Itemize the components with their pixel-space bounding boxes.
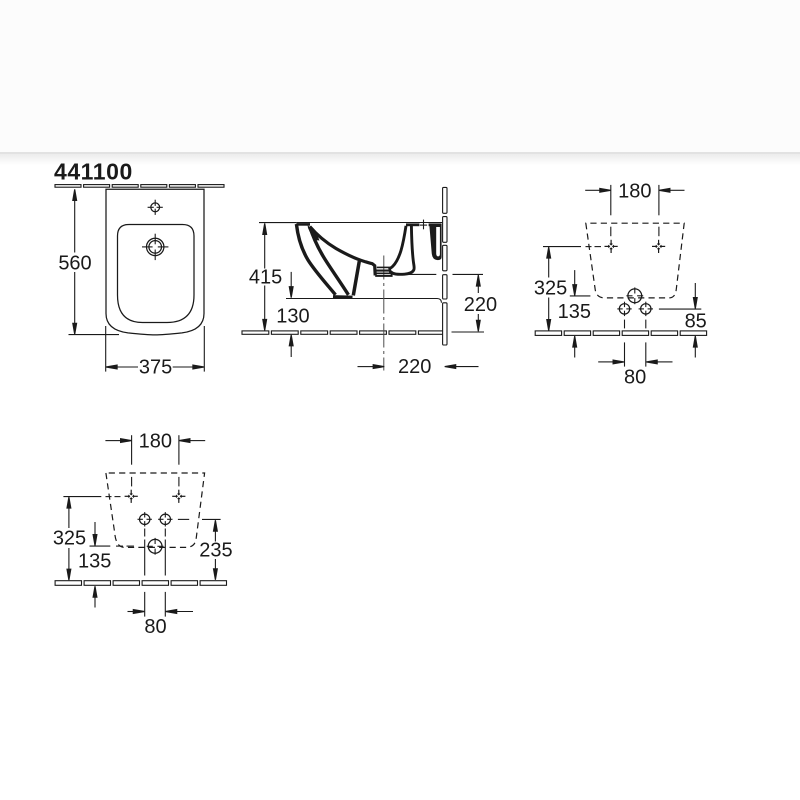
svg-text:235: 235	[199, 540, 232, 562]
drilling view lower fixing holes	[138, 512, 152, 526]
rear view dimension 180	[585, 185, 684, 215]
drilling view 325 extension line	[63, 496, 120, 498]
drilling view drain circle	[147, 538, 164, 555]
drilling view 235 extension line	[178, 518, 221, 520]
plan view tap hole crosshair	[148, 200, 163, 215]
svg-text:80: 80	[144, 616, 166, 638]
dimension 560	[69, 194, 120, 335]
svg-text:180: 180	[618, 181, 651, 203]
side view 415 extension line	[259, 222, 296, 224]
svg-text:130: 130	[276, 305, 309, 327]
rear view dimension 135	[574, 270, 576, 285]
svg-text:180: 180	[139, 430, 172, 452]
dimension 220 bottom	[358, 366, 479, 368]
dimension 375	[106, 326, 205, 372]
drilling view lower hole centre lines	[145, 529, 166, 576]
side view ceramic section: rear bowl wall inner	[390, 226, 406, 269]
svg-text:325: 325	[53, 528, 86, 550]
rear view floor hatch	[535, 331, 706, 336]
rear view fixing hole centre lines	[610, 227, 612, 237]
rear view drain circle	[626, 287, 643, 304]
drilling view dimension 135	[94, 522, 96, 535]
rear view lower hole extension lines below floor	[624, 342, 626, 366]
svg-text:135: 135	[78, 551, 111, 573]
plan view bidet outline	[106, 189, 204, 335]
rear view 85 extension line	[659, 308, 701, 310]
plan view wall hatch	[55, 185, 224, 188]
drilling view dashed outline	[106, 473, 205, 547]
dimension 220 right	[477, 280, 479, 326]
dimension 415	[264, 228, 266, 326]
side view wall section bar	[443, 187, 447, 345]
side view drain outlet extension line 220	[405, 273, 436, 275]
side view ceramic section: inner front wall	[310, 227, 349, 295]
side view ceramic section: bowl surface	[310, 227, 375, 276]
rear view 135 extension line	[570, 295, 591, 297]
dimension 130	[290, 272, 292, 357]
svg-text:220: 220	[464, 294, 497, 316]
side view drain centre line	[383, 256, 385, 371]
drilling view 135 extension line	[90, 545, 135, 547]
plan view inner bowl	[118, 225, 195, 323]
drilling view floor hatch	[55, 581, 226, 586]
side view drain strainer lines	[377, 266, 391, 268]
rear view lower hole centre dashes above floor	[624, 320, 626, 329]
rear view dimension 325	[548, 252, 550, 327]
side view tap hole centre cross	[423, 220, 425, 230]
side view ceramic section: rear bowl wall outer	[390, 226, 414, 275]
drilling view dimension 235	[214, 525, 216, 576]
drilling view dimension 325	[68, 502, 70, 576]
side view ceramic section: rear mounting mass	[430, 224, 442, 260]
svg-text:560: 560	[58, 253, 91, 275]
side view floor extension right of wall	[452, 331, 485, 333]
plan view drain crosshair	[142, 234, 168, 260]
drilling view fixing holes	[125, 490, 138, 503]
rear view 325 extension line	[543, 246, 601, 248]
side view floor hatch	[242, 331, 445, 334]
svg-text:415: 415	[249, 266, 282, 288]
svg-text:375: 375	[139, 356, 172, 378]
drilling view dimension 80	[128, 611, 194, 613]
svg-text:325: 325	[534, 277, 567, 299]
svg-text:220: 220	[398, 356, 431, 378]
svg-text:80: 80	[624, 366, 646, 388]
svg-text:85: 85	[685, 311, 707, 333]
side view ceramic section: front fork fill	[308, 225, 320, 241]
rear view dimension 85	[694, 283, 696, 298]
side view ceramic section: tap deck left	[406, 223, 419, 226]
drilling view fixing hole centre lines	[131, 477, 133, 487]
dimension texts	[53, 181, 707, 639]
side view ceramic section: front rim top	[296, 223, 310, 226]
svg-text:135: 135	[558, 301, 591, 323]
side view ceramic section: foot bottom	[333, 295, 353, 299]
drilling view dimension 180	[105, 435, 205, 465]
rear view lower fixing holes	[617, 302, 631, 316]
side view ceramic section: drain right junction	[389, 268, 392, 275]
rear view dashed outline	[586, 223, 684, 298]
svg-text:441100: 441100	[54, 159, 133, 185]
side view ceramic section: bowl rear separating wall	[353, 261, 359, 295]
side view underside line	[286, 299, 442, 303]
rear view fixing holes	[605, 240, 618, 253]
rear view dimension 80	[598, 361, 672, 363]
drilling view lower hole extension lines below floor	[144, 592, 146, 617]
side view ceramic section: tap deck right	[429, 223, 442, 226]
side view ceramic section: outer front edge	[296, 224, 335, 295]
side view rim line	[296, 222, 442, 224]
